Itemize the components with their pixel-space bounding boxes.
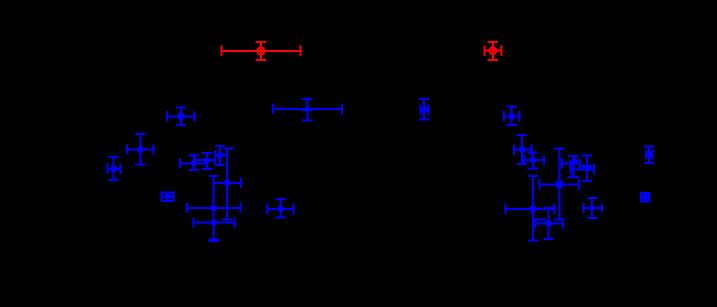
point K blue circle tiny-x <box>419 99 429 120</box>
point S1 blue circle tiny <box>161 191 173 201</box>
point M2 blue circle <box>524 153 544 169</box>
point L blue circle <box>504 107 519 125</box>
point J red open circle <box>484 42 501 60</box>
point N2 blue circle <box>535 208 563 239</box>
point I blue circle <box>268 199 294 218</box>
point C blue triangle-up <box>273 99 342 121</box>
diagonal tick on M3 marker <box>573 157 577 162</box>
point M5 blue circle large <box>540 149 579 220</box>
point H3 blue circle <box>194 214 235 241</box>
point F1 blue circle <box>180 156 206 170</box>
thick double bottom cap below H3 <box>209 238 219 240</box>
point F3 blue circle <box>215 146 227 165</box>
point M1 blue circle <box>514 135 531 164</box>
point M4 blue triangle-down <box>570 156 594 181</box>
point Q2 blue circle tiny <box>640 192 650 202</box>
point Q1 blue circle tiny-x <box>644 146 654 163</box>
point N1 blue circle <box>506 176 555 240</box>
point M3 blue triangle-down <box>562 156 580 177</box>
point G blue circle <box>214 149 241 220</box>
point H2 blue circle <box>187 176 241 223</box>
short line segment near N2 <box>535 219 546 221</box>
point E blue circle <box>108 157 121 180</box>
point B blue circle <box>167 107 194 125</box>
point O blue circle <box>584 198 602 218</box>
point D blue circle <box>127 134 154 165</box>
point F2 blue circle <box>195 153 216 169</box>
point A red open circle <box>221 42 300 60</box>
